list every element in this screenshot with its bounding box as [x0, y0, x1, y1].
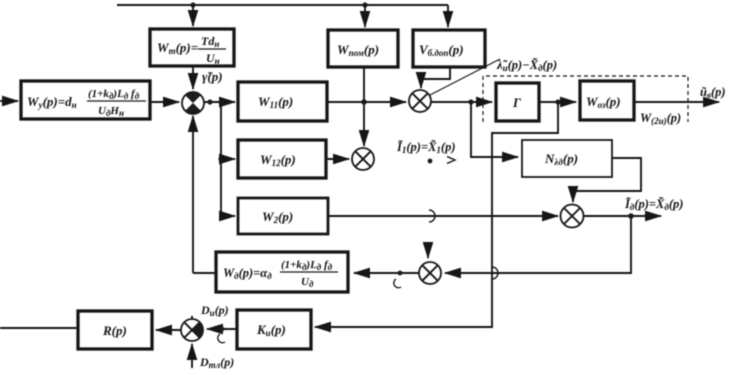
wire Vdop down into sum2 [421, 67, 450, 88]
summing junction sum4 [561, 205, 584, 228]
block Vdop [413, 30, 485, 67]
svg-text:UдHн: UдHн [98, 105, 124, 118]
node output branch [628, 213, 634, 219]
node top junction at Wt drop [190, 2, 195, 7]
wire R output left [0, 327, 78, 329]
wire sum2 to gamma box [431, 101, 492, 103]
node sum3 output dot [428, 159, 433, 164]
block W11 [238, 82, 327, 121]
wire sum1 feedback from below [192, 116, 194, 273]
summing junction sum3 [352, 148, 374, 170]
svg-text:Kи(p): Kи(p) [256, 322, 286, 338]
block R [78, 311, 152, 349]
svg-text:Tdн: Tdн [201, 34, 219, 49]
summing junction sum1 [182, 92, 204, 114]
wire Ki to sum5 [207, 328, 237, 330]
svg-text:Uд: Uд [301, 276, 314, 289]
svg-text:Wу(p)=dн: Wу(p)=dн [27, 94, 77, 110]
wire callout diagonal [430, 59, 500, 95]
wire W1 to sum1 [150, 101, 179, 103]
block Gamma [496, 83, 539, 121]
svg-text:Nλд(p): Nλд(p) [544, 151, 578, 167]
block Wd [216, 252, 348, 292]
wire input arrow into W1 [0, 100, 18, 102]
wire Wd to left riser [193, 272, 216, 274]
block Wbd [580, 81, 634, 120]
svg-text:(1+kд)Lд fд: (1+kд)Lд fд [281, 259, 333, 272]
mark j hop [394, 279, 401, 288]
summing junction sum5 [181, 319, 203, 341]
hop mark on row3 [429, 210, 435, 222]
wire into W2 [221, 215, 235, 217]
svg-text:γ̃(p): γ̃(p) [202, 69, 223, 84]
wire top feed line [117, 4, 448, 6]
svg-text:R(p): R(p) [102, 323, 127, 338]
wire feedback down from output [445, 216, 631, 273]
wire W11 to sum2 [327, 101, 406, 103]
svg-text:W11(p): W11(p) [258, 94, 293, 110]
svg-text:W(2и)(p): W(2и)(p) [640, 111, 681, 126]
block Ki [237, 310, 311, 349]
svg-text:W12(p): W12(p) [260, 152, 296, 168]
wire output u [634, 101, 719, 103]
mark hop near Ki [218, 334, 225, 343]
wire stub into sum6 top [427, 249, 429, 258]
wire stub into sum5 top [191, 316, 193, 319]
wire sum4 output [584, 215, 662, 217]
svg-text:ũв(p): ũв(p) [700, 85, 726, 100]
wire Nld to sum4 [573, 158, 641, 202]
hop mark on row4 [492, 267, 498, 279]
block W12 [238, 140, 326, 178]
svg-text:Vб.доп(p): Vб.доп(p) [419, 42, 464, 58]
block W2 [238, 198, 328, 234]
svg-text:λ̃и(p)−X̃д(p): λ̃и(p)−X̃д(p) [496, 58, 557, 73]
wire drop into Wt [192, 5, 194, 26]
svg-text:Ĩд(p)=X̃д(p): Ĩд(p)=X̃д(p) [624, 197, 683, 212]
wire Wpom down to sum3 [363, 67, 365, 146]
svg-text:Wд(p)=αд: Wд(p)=αд [223, 266, 272, 281]
wire gamma to Wbd [539, 101, 576, 103]
svg-text:Γ: Γ [512, 95, 521, 110]
dashed region [483, 76, 688, 122]
wire branch down from node [220, 102, 222, 216]
wire W12 to sum3 [326, 158, 349, 160]
svg-text:Ĩ1(p)=X̃1(p): Ĩ1(p)=X̃1(p) [396, 140, 456, 155]
wire Wt to sum1 [192, 66, 194, 89]
wire branch down to Nld [471, 102, 518, 157]
node before sum6 [398, 271, 403, 276]
block Nld [522, 140, 612, 177]
svg-text:W2(p): W2(p) [262, 209, 293, 225]
summing junction sum6 [419, 262, 441, 284]
svg-text:Wпом(p): Wпом(p) [337, 42, 379, 58]
wire drop into Wpom [364, 5, 366, 27]
node crossing row1 [361, 99, 367, 105]
summing junction sum2 [409, 90, 431, 112]
svg-text:Wт(p)=: Wт(p)= [157, 40, 198, 56]
wire feedback gamma down to Ki [315, 102, 558, 327]
node after gamma [555, 99, 560, 104]
wire drop into Vdop [447, 5, 449, 27]
node after sum1 [207, 99, 212, 104]
arrow mark I1 [447, 157, 455, 164]
node branch down [218, 99, 223, 104]
node top junction at Wpom drop [362, 2, 367, 7]
wire sum6 to Wd [354, 272, 419, 274]
node branch W12 [218, 156, 223, 161]
wire into W12 [221, 158, 235, 160]
svg-text:Wоз(p): Wоз(p) [586, 94, 621, 110]
wire sum5 to R [156, 329, 181, 331]
block Wt upper box [150, 29, 234, 66]
svg-text:Dи(p): Dи(p) [200, 303, 229, 318]
wire sum5 bottom input [191, 344, 193, 368]
block W1 input formula box [21, 81, 150, 119]
svg-text:Dтл(p): Dтл(p) [199, 355, 234, 370]
block Wpom [328, 30, 398, 67]
svg-text:Uн: Uн [206, 51, 220, 66]
svg-text:(1+kд)Lд fд: (1+kд)Lд fд [88, 88, 140, 101]
wire W2 to sum4 [328, 215, 558, 217]
node before dashed box [468, 99, 473, 104]
node before sum5 [220, 327, 225, 332]
wire sum1 output to W11 [204, 101, 235, 103]
